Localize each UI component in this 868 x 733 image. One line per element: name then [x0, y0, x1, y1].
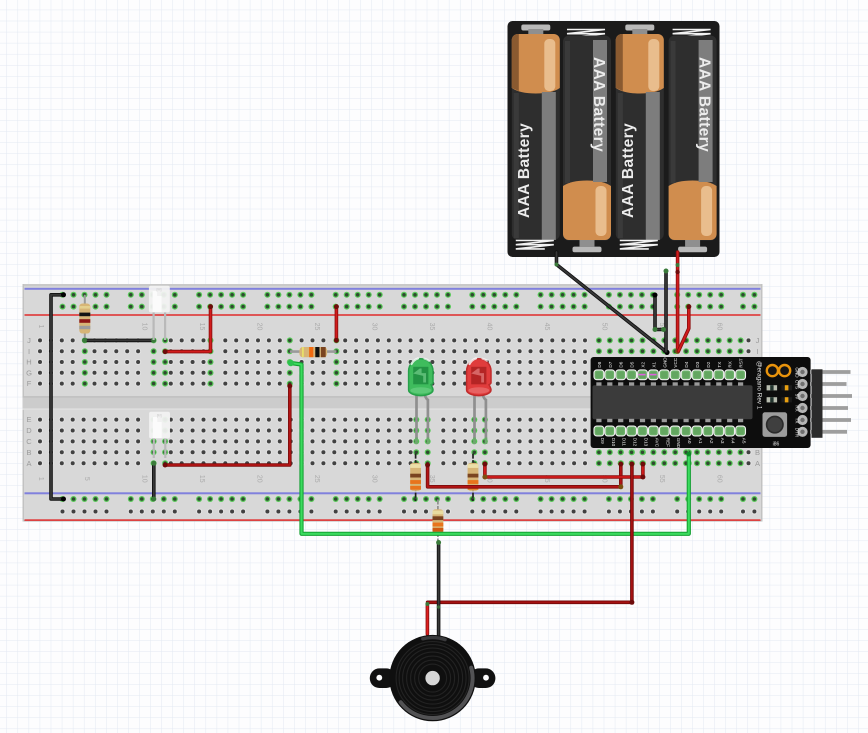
svg-text:VCC: VCC [673, 357, 678, 367]
svg-text:5: 5 [83, 477, 90, 481]
svg-text:X1: X1 [651, 362, 656, 368]
wire black vertical to GND pin [664, 269, 669, 352]
wire black buzzer negative [436, 540, 441, 636]
svg-text:50: 50 [601, 323, 608, 331]
wire red top rail to row J [334, 304, 339, 343]
svg-text:I: I [756, 347, 758, 356]
svg-text:AAA Battery: AAA Battery [590, 57, 607, 152]
svg-text:RST: RST [739, 358, 744, 367]
svg-text:30: 30 [371, 475, 378, 483]
svg-text:D12: D12 [633, 438, 638, 447]
resistor R5 [433, 500, 444, 542]
svg-text:TX: TX [717, 362, 722, 368]
svg-text:D11: D11 [622, 438, 627, 447]
wire black row A to bottom rail [151, 461, 156, 502]
resistor R1 [79, 295, 90, 341]
breadboard holes [37, 292, 758, 515]
resistor R2 [290, 347, 337, 357]
svg-text:25: 25 [313, 475, 320, 483]
wire red D12 to buzzer [428, 462, 635, 605]
svg-text:60: 60 [716, 475, 723, 483]
svg-text:A3: A3 [720, 438, 725, 444]
wire black row J [82, 338, 156, 343]
svg-text:TX: TX [795, 418, 800, 424]
svg-text:D7: D7 [608, 361, 613, 367]
svg-text:1: 1 [37, 477, 44, 481]
svg-text:55: 55 [658, 475, 665, 483]
wire red LED1 resistor to D11 [425, 462, 623, 490]
svg-text:H: H [26, 358, 31, 367]
wire red row I to top rail [163, 304, 213, 354]
wire green signal to A0 [288, 360, 692, 534]
svg-text:@eragano Rev 1: @eragano Rev 1 [756, 361, 763, 410]
svg-text:DTR: DTR [795, 428, 800, 438]
svg-text:1: 1 [37, 325, 44, 329]
svg-text:35: 35 [428, 323, 435, 331]
svg-text:A0: A0 [687, 438, 692, 444]
svg-text:20: 20 [256, 475, 263, 483]
svg-text:GND: GND [676, 438, 681, 449]
serial header pins [810, 369, 852, 438]
svg-text:AAA Battery: AAA Battery [516, 123, 533, 218]
svg-text:RX: RX [795, 405, 800, 411]
svg-text:D9: D9 [600, 438, 605, 444]
wire red row A left to D11 column [163, 384, 293, 468]
svg-text:AAA Battery: AAA Battery [696, 57, 713, 152]
svg-text:B: B [26, 448, 31, 457]
svg-text:D5: D5 [630, 361, 635, 367]
svg-text:45: 45 [543, 323, 550, 331]
svg-text:15: 15 [198, 323, 205, 331]
wire red battery positive lead [675, 252, 680, 354]
svg-text:F: F [27, 379, 32, 388]
svg-text:D10: D10 [611, 438, 616, 447]
resistor R4 [468, 454, 479, 501]
breadboard [23, 284, 763, 522]
svg-text:10: 10 [141, 475, 148, 483]
resistor R3 [410, 454, 421, 501]
wire red buzzer positive stub [425, 602, 429, 634]
svg-text:X2: X2 [641, 362, 646, 368]
wire black top rail to GND column [653, 293, 667, 333]
svg-text:RX: RX [728, 361, 733, 367]
wire black battery negative lead [555, 252, 670, 355]
svg-text:AAA Battery: AAA Battery [620, 123, 637, 218]
svg-text:A1: A1 [698, 438, 703, 444]
svg-text:I: I [28, 347, 30, 356]
sensor white bottom [149, 412, 170, 458]
svg-text:E: E [26, 415, 31, 424]
svg-text:D2: D2 [706, 361, 711, 367]
svg-text:40: 40 [486, 323, 493, 331]
wire red LED2 resistor to D13 [482, 462, 645, 480]
svg-text:GND: GND [795, 367, 800, 378]
svg-text:A5: A5 [742, 438, 747, 444]
breadboard row and column labels [26, 323, 761, 483]
svg-text:10: 10 [141, 323, 148, 331]
svg-text:25: 25 [313, 323, 320, 331]
svg-text:AVC: AVC [654, 438, 659, 448]
svg-text:REF: REF [665, 438, 670, 447]
svg-text:GND: GND [662, 357, 667, 368]
battery pack 4xAAA [508, 21, 720, 257]
svg-text:A4: A4 [731, 438, 736, 444]
svg-text:[M]: [M] [157, 288, 162, 292]
svg-text:B: B [755, 448, 760, 457]
svg-text:i86: i86 [773, 442, 780, 448]
wire red top rail to VCC pin [679, 304, 692, 351]
LED red [467, 358, 491, 444]
svg-text:15: 15 [198, 475, 205, 483]
svg-text:30: 30 [371, 323, 378, 331]
svg-text:D6: D6 [619, 361, 624, 367]
svg-text:[M]: [M] [157, 414, 162, 418]
svg-text:D3: D3 [695, 361, 700, 367]
svg-text:A: A [755, 459, 760, 468]
microcontroller board @eragano Rev 1 [591, 357, 811, 449]
svg-text:C: C [26, 437, 32, 446]
svg-text:20: 20 [256, 323, 263, 331]
svg-text:A2: A2 [709, 438, 714, 444]
svg-text:G: G [26, 368, 32, 377]
svg-text:5V: 5V [795, 394, 800, 401]
LED green [409, 358, 433, 444]
svg-text:J: J [27, 336, 31, 345]
buzzer piezo [370, 635, 496, 721]
svg-text:CTS: CTS [795, 380, 800, 389]
svg-text:J: J [756, 336, 760, 345]
svg-text:A: A [26, 459, 31, 468]
svg-text:60: 60 [716, 323, 723, 331]
wire black rail-to-rail left [51, 292, 66, 501]
svg-text:D8: D8 [597, 361, 602, 367]
svg-text:D4: D4 [684, 361, 689, 367]
svg-text:D13: D13 [644, 438, 649, 447]
sensor white top [149, 286, 170, 340]
svg-text:D: D [26, 426, 32, 435]
